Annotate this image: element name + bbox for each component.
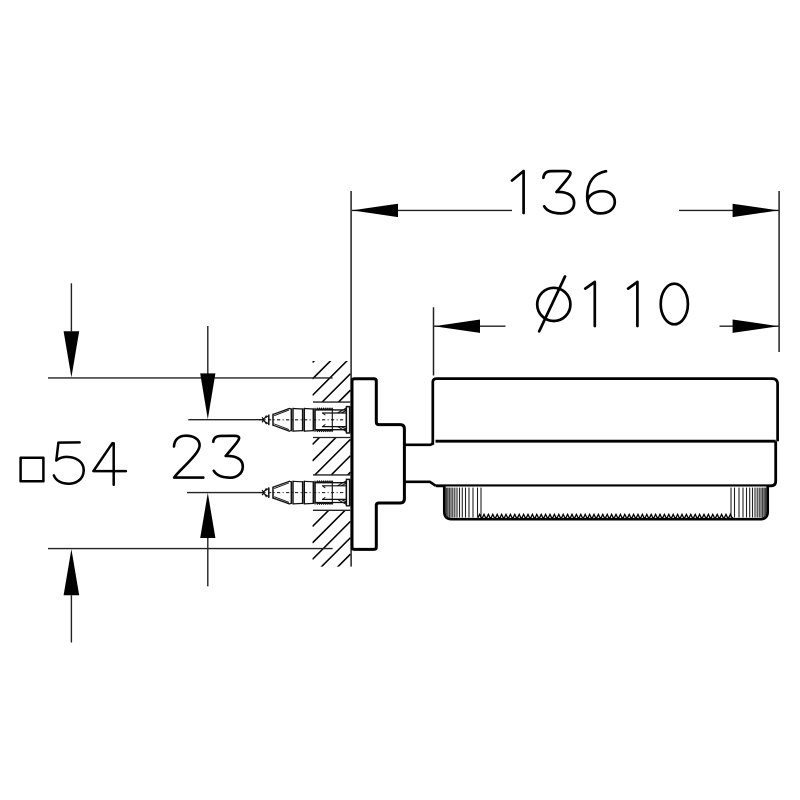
holder arm top line <box>404 442 432 445</box>
dim 54: bottom arrow <box>70 595 72 642</box>
screw centerline <box>259 419 350 421</box>
drilled hole lines <box>313 475 350 510</box>
dim 54: top extension line <box>48 377 333 379</box>
dim text square 54 <box>21 442 126 484</box>
soap dish rim (top band) <box>433 379 778 445</box>
dim 54: bottom extension line <box>48 548 333 550</box>
drilled hole lines <box>313 402 350 437</box>
soap dish middle band (right edge and bottom line) <box>436 441 776 486</box>
dim 23: top extension line <box>188 419 261 421</box>
dim 23: bottom extension line <box>187 492 262 494</box>
dim 23: bottom arrow <box>207 538 209 586</box>
mounting plate (wall bracket, cross-section silhouette) <box>352 379 404 550</box>
screw centerline <box>259 492 350 494</box>
dim text 136 <box>512 171 615 213</box>
dim ø110: dimension line <box>434 325 779 327</box>
holder arm bottom line + chamfer <box>404 482 435 486</box>
dim 23: top arrow <box>207 326 209 373</box>
dim text ø110 <box>537 277 688 332</box>
soap dish rim bottom line <box>436 440 776 443</box>
screw body <box>262 479 350 505</box>
dim 136: right extension line <box>778 191 780 352</box>
dim ø110: left arrowhead <box>434 320 480 333</box>
dim 136: left arrowhead <box>352 204 398 217</box>
dim 54: top arrow <box>70 283 72 331</box>
knurl serrated bottom edge <box>478 514 733 517</box>
knurl ribs (vertical shading lines) <box>446 488 765 518</box>
dim 136: dimension line <box>352 209 779 211</box>
dim text 23 <box>174 436 243 478</box>
wall face / left extension line <box>350 191 352 567</box>
dim ø110: right arrowhead <box>733 320 779 333</box>
wall hatching <box>313 325 351 592</box>
screw body <box>262 407 350 433</box>
glass dish knurled band outline <box>444 487 767 520</box>
dim ø110: left extension line <box>433 307 435 375</box>
dim 136: right arrowhead <box>733 204 779 217</box>
